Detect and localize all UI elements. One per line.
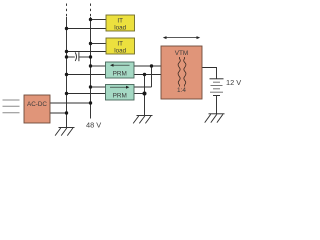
wire PRM2 output plus horizontal bbox=[134, 86, 152, 88]
wire AC input phase 2 bbox=[3, 105, 20, 107]
wire IT load 2 bottom input bbox=[67, 51, 107, 53]
wire bus -48V left vertical bbox=[66, 17, 68, 128]
wire AC-DC negative output bbox=[50, 112, 67, 114]
wire IT load 1 bottom input bbox=[67, 28, 107, 30]
wire PRM2 output plus riser bbox=[151, 66, 153, 87]
node PRM2 bottom junction bbox=[65, 92, 68, 95]
node IT2 bottom junction bbox=[65, 50, 68, 53]
node D2 minus tie bbox=[143, 73, 146, 76]
node D1 plus tie bbox=[150, 64, 153, 67]
svg-text:1:4: 1:4 bbox=[177, 87, 186, 94]
node AC-DC negative junction bbox=[65, 111, 68, 114]
AC-DC converter bbox=[24, 95, 50, 123]
wire IT load 2 top input bbox=[91, 43, 107, 45]
node IT1 bottom junction bbox=[65, 27, 68, 30]
wire PRM1 bottom input bbox=[67, 74, 106, 76]
wire bus +48V right vertical bbox=[90, 17, 92, 119]
node IT1 top junction bbox=[89, 18, 92, 21]
wire VTM output to battery bbox=[202, 68, 217, 79]
node PRM1 top junction bbox=[89, 64, 92, 67]
wire AC-DC positive output bbox=[50, 102, 91, 104]
VTM U3 bbox=[161, 46, 202, 99]
node IT2 top junction bbox=[89, 42, 92, 45]
svg-text:AC-DC: AC-DC bbox=[27, 101, 47, 108]
wire IT load 1 top input bbox=[91, 19, 107, 21]
battery BT1 12V bbox=[210, 79, 224, 96]
wire PRM2 bottom input bbox=[67, 93, 106, 95]
capacitor C1 bus decoupling bbox=[67, 52, 91, 61]
wire PRM1 top input bbox=[91, 65, 106, 67]
svg-text:IT: IT bbox=[117, 40, 123, 47]
wire bus +48V right (dashed continuation top) bbox=[90, 4, 92, 18]
wire PRM1 output minus to VTM bbox=[134, 74, 162, 76]
node capacitor left junction bbox=[65, 55, 68, 58]
wire bus -48V left (dashed continuation top) bbox=[66, 4, 68, 18]
svg-text:load: load bbox=[114, 24, 126, 31]
svg-text:VTM: VTM bbox=[175, 50, 189, 57]
wire PRM2 output minus horizontal bbox=[134, 93, 145, 95]
svg-text:PRM: PRM bbox=[113, 92, 127, 99]
ground G3 (battery return) bbox=[205, 114, 225, 123]
ground G1 (48V return) bbox=[55, 128, 74, 136]
wire PRM2 top input bbox=[91, 86, 106, 88]
PRM U1 (reverse power flow) bbox=[106, 62, 135, 78]
svg-text:IT: IT bbox=[117, 17, 123, 24]
wire AC input phase 1 bbox=[3, 99, 20, 101]
svg-text:12 V: 12 V bbox=[226, 78, 241, 87]
svg-text:PRM: PRM bbox=[113, 71, 127, 78]
node PRM1 bottom junction bbox=[65, 73, 68, 76]
node AC-DC positive junction bbox=[89, 101, 92, 104]
wire PRM1 output plus to VTM bbox=[134, 65, 162, 67]
wire minus tie vertical to ground bbox=[144, 75, 146, 116]
svg-text:48 V: 48 V bbox=[86, 121, 101, 130]
wire battery negative to ground bbox=[216, 96, 218, 114]
ground G2 (PRM/VTM return) bbox=[133, 116, 152, 124]
IT load 1 bbox=[106, 15, 135, 31]
transformer T1 windings inside VTM bbox=[178, 57, 186, 87]
svg-text:load: load bbox=[114, 47, 126, 54]
node capacitor right junction bbox=[89, 55, 92, 58]
node PRM2 top junction bbox=[89, 85, 92, 88]
bidirectional power flow arrow above VTM bbox=[163, 36, 200, 39]
PRM U2 (forward power flow) bbox=[106, 85, 135, 101]
wire AC input phase 3 bbox=[3, 112, 20, 114]
node D3 minus tie bbox=[143, 92, 147, 96]
IT load 2 bbox=[106, 38, 135, 54]
